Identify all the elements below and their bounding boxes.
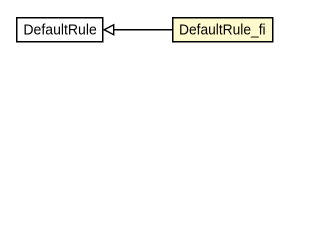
class box DefaultRule_fi: [173, 18, 273, 42]
wire inheritance connector: [113, 29, 173, 31]
svg-text:DefaultRule_fi: DefaultRule_fi: [179, 23, 266, 39]
background: [0, 0, 289, 59]
class box DefaultRule: [17, 18, 103, 42]
generalization arrowhead (hollow triangle): [104, 25, 114, 35]
svg-text:DefaultRule: DefaultRule: [23, 23, 96, 39]
